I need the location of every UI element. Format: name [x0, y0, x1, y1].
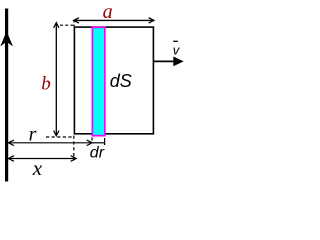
wire (straight current-carrying conductor): [5, 9, 8, 182]
wire current arrowhead: [0, 31, 13, 46]
dashed connector bottom: [46, 136, 73, 138]
svg-text:dr: dr: [90, 145, 105, 162]
velocity arrow line: [154, 60, 175, 62]
strip dS (cyan with magenta border): [92, 27, 104, 135]
svg-text:a: a: [103, 1, 113, 23]
vertical dashed extension of rect left edge: [73, 136, 75, 161]
dr left tick: [91, 137, 93, 140]
svg-text:dS: dS: [110, 71, 132, 91]
v overbar: [173, 40, 178, 42]
dashed connector top (to rect corner): [60, 24, 74, 26]
x left arrowhead: [8, 156, 14, 162]
b top arrowhead: [54, 23, 59, 28]
a left arrowhead: [74, 18, 79, 23]
dimension r line: [9, 142, 92, 144]
x right arrowhead: [71, 156, 77, 162]
velocity arrowhead (filled): [173, 57, 183, 67]
dimension b line: [55, 23, 57, 135]
svg-text:b: b: [41, 74, 51, 95]
r left arrowhead: [8, 140, 14, 146]
dr extension line: [92, 142, 105, 144]
a right arrowhead: [149, 18, 154, 23]
dimension a line: [74, 19, 153, 21]
svg-text:r: r: [29, 124, 37, 146]
dimension x line: [9, 158, 76, 160]
dr right tick: [104, 138, 106, 145]
dashed riser at rect top-left corner: [73, 20, 75, 27]
svg-text:x: x: [32, 156, 43, 180]
b bottom arrowhead: [54, 131, 59, 136]
r right arrowhead: [87, 140, 93, 146]
svg-text:v: v: [173, 43, 181, 58]
loop rectangle: [74, 27, 153, 134]
